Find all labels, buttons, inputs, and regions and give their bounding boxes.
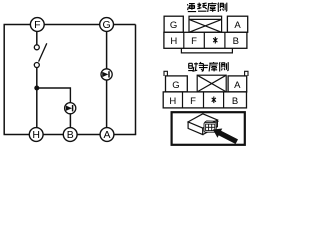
svg-text:G: G xyxy=(172,80,179,91)
svg-text:F: F xyxy=(190,96,196,107)
wire left rail xyxy=(3,25,5,135)
connector 3d icon socket xyxy=(204,121,218,132)
table2 left corner tab xyxy=(164,71,167,76)
label passenger side (joshu-seki-gawa) xyxy=(188,62,228,72)
connector pin F xyxy=(30,18,44,32)
table2 blocked slot crossed box xyxy=(197,75,226,92)
svg-text:H: H xyxy=(169,96,176,107)
connector pin G xyxy=(100,18,114,32)
label driver side (unten-seki-gawa) xyxy=(188,3,227,13)
wire switch to H xyxy=(36,67,38,127)
svg-text:B: B xyxy=(233,36,239,47)
svg-text:F: F xyxy=(191,36,197,47)
wire right diode to A xyxy=(106,80,108,128)
svg-text:G: G xyxy=(170,20,177,31)
table1 pin box G xyxy=(164,16,183,32)
svg-text:B: B xyxy=(232,96,238,107)
table1 pin row H F * B xyxy=(164,32,247,48)
svg-text:A: A xyxy=(234,80,241,91)
connector 3d icon body xyxy=(188,114,217,135)
svg-text:H: H xyxy=(170,36,177,47)
connector pin A xyxy=(100,128,114,142)
connector pin H xyxy=(29,128,43,142)
table1 blocked slot crossed box xyxy=(189,16,222,32)
svg-text:A: A xyxy=(234,20,241,31)
table1 connector lock tab bracket xyxy=(181,48,232,53)
wire junction branch to left diode xyxy=(37,88,71,103)
junction dot xyxy=(34,86,39,91)
arrow pointing at connector xyxy=(213,129,238,145)
svg-text:B: B xyxy=(67,129,74,141)
svg-text:F: F xyxy=(34,19,40,31)
connector pin B xyxy=(63,128,77,142)
inset box frame xyxy=(172,112,245,145)
wire right rail xyxy=(135,25,137,135)
table2 pin box A xyxy=(228,76,247,92)
switch S1 xyxy=(34,43,47,67)
table2 pin row H F * B xyxy=(163,92,246,108)
wire top rail xyxy=(4,24,136,26)
svg-text:G: G xyxy=(103,19,111,31)
table1 pin box A xyxy=(227,16,247,32)
wire bottom rail xyxy=(4,134,137,136)
diode D1 left circled xyxy=(65,103,76,114)
wire G to right diode xyxy=(106,32,108,70)
wire F to switch xyxy=(36,32,38,45)
diode D2 right circled xyxy=(101,69,112,80)
table2 pin box G xyxy=(166,76,188,92)
table2 right corner tab xyxy=(245,71,248,76)
wire left diode to B xyxy=(69,114,71,128)
svg-text:H: H xyxy=(32,129,40,141)
svg-text:A: A xyxy=(103,129,110,141)
